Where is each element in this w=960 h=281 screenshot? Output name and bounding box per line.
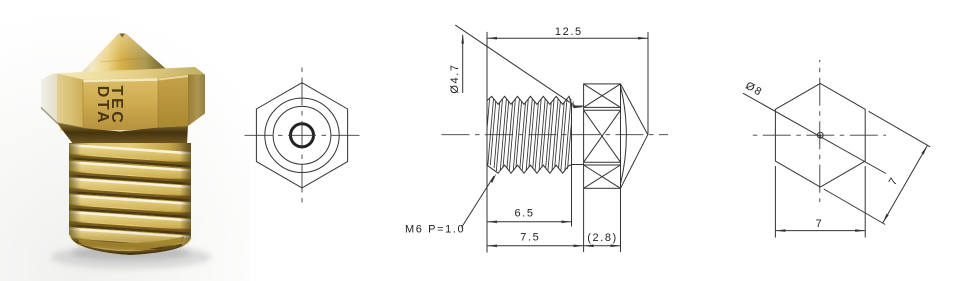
hex left facet	[57, 74, 83, 129]
thread crest profile bottom	[487, 165, 572, 173]
svg-text:6.5: 6.5	[514, 208, 534, 220]
dim 12.5	[487, 37, 648, 39]
hex body side view	[584, 84, 621, 188]
hex front face	[83, 78, 158, 130]
dim 6.5	[487, 221, 572, 223]
tip flat circle	[273, 106, 331, 164]
hex far-right facet	[188, 75, 205, 127]
nozzle cone tip	[78, 34, 169, 77]
cone base circle	[265, 98, 339, 172]
svg-text:TECDTA: TECDTA	[94, 86, 125, 126]
hex chamfer X middle	[584, 110, 621, 162]
side view centerline	[442, 134, 669, 136]
dim 7 diagonal	[869, 111, 931, 147]
svg-text:7: 7	[887, 175, 901, 188]
hex far-left facet	[41, 74, 57, 124]
M6 P=1.0 thread callout	[462, 176, 495, 228]
hex top bevel	[41, 67, 205, 81]
orifice boss circle	[291, 124, 314, 147]
svg-text:Ø4.7: Ø4.7	[449, 63, 461, 93]
dim (2.8)	[584, 245, 621, 247]
hex right facet	[158, 75, 188, 128]
photo: brass nozzle	[0, 0, 250, 281]
nozzle cone side view	[621, 84, 648, 135]
dia 8 diagonal leader	[743, 93, 886, 173]
front view centerlines	[243, 134, 363, 136]
svg-text:7: 7	[816, 218, 824, 230]
svg-text:M6 P=1.0: M6 P=1.0	[405, 224, 465, 236]
svg-text:7.5: 7.5	[520, 232, 540, 244]
rear view hex body	[775, 83, 865, 187]
shank outline	[572, 105, 584, 107]
hex chamfer X top	[584, 84, 621, 108]
thread runout line / 6.5 extension	[571, 104, 573, 227]
thread start face / 12.5 extension line	[486, 32, 488, 253]
svg-text:12.5: 12.5	[555, 26, 583, 38]
center orifice	[817, 132, 823, 138]
dim 7 horizontal	[774, 166, 776, 238]
dim 7.5	[487, 245, 584, 247]
neck groove	[57, 123, 188, 144]
front view hex body	[256, 83, 347, 188]
thread flank lines	[481, 94, 581, 176]
rear view centerlines	[752, 134, 886, 136]
svg-text:Ø8: Ø8	[743, 80, 764, 99]
threaded shank	[69, 143, 191, 255]
dim dia 4.7	[462, 35, 464, 93]
hex chamfer X bottom	[584, 165, 621, 188]
svg-text:(2.8): (2.8)	[587, 232, 618, 244]
cone base arc	[621, 87, 627, 183]
thread crest profile top	[487, 96, 572, 104]
